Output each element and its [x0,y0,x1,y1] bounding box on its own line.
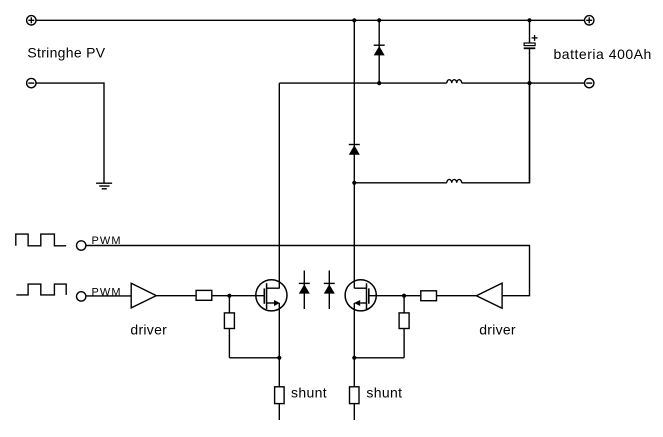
transistor Q1 [256,280,287,311]
node source2 [352,356,356,360]
wire PWM2 to driver1 [86,295,131,297]
op-amp driver U1 [131,283,156,308]
node second rail x529 [527,81,531,85]
diode D1 [374,45,385,55]
diode D4 body [324,271,335,310]
svg-text:driver: driver [479,321,516,337]
terminal battery minus [585,78,594,87]
wire vertical left leg x354 top [353,20,355,144]
node top rail x379 [377,18,381,22]
svg-text:driver: driver [130,321,167,337]
wire battery branch x529 down [529,48,531,183]
resistor R2 gate [421,291,437,301]
resistor R5 shunt1 [275,387,285,404]
wire x354 diode to lower rail [353,144,355,288]
wire drain1 up [278,83,280,288]
resistor R6 shunt2 [350,387,360,404]
wire R1 to gate [212,295,264,297]
svg-text:Stringhe PV: Stringhe PV [27,45,105,61]
wire below shunt1 [278,404,280,420]
node top rail x354 [352,18,356,22]
svg-text:shunt: shunt [366,384,402,400]
wire below shunt2 [353,404,355,420]
node source1 [277,356,281,360]
node gate2 [402,294,406,298]
node top rail x529 [527,18,531,22]
wire second rail right of inductor [462,82,585,84]
terminal PWM1 [77,241,86,250]
node gate1 [227,294,231,298]
terminal PV minus [27,78,36,87]
squarewave icon PWM1 [16,234,66,246]
svg-text:shunt: shunt [291,384,327,400]
wire lower rail left of inductor [354,182,447,184]
transistor Q2 [345,280,376,311]
wire driver1 to R1 [156,295,196,297]
wire second rail left of inductor [279,82,447,84]
svg-text:batteria 400Ah: batteria 400Ah [554,46,652,62]
terminal battery plus [585,16,594,25]
wire PWM1 to right driver [86,246,530,296]
wire source1 down [278,303,280,387]
wire diode branch x379 [378,20,380,83]
wire R4 bottom to source2 [354,357,404,359]
wire top rail [36,19,585,21]
wire PV minus to ground [36,83,104,183]
ground [96,183,112,189]
resistor R4 pulldown [399,296,409,358]
diode D2 [349,145,360,155]
terminal PWM2 [77,292,86,301]
resistor R1 gate [196,290,212,300]
wire source2 down [353,303,355,387]
diode D3 body [299,271,310,310]
squarewave icon PWM2 [16,284,66,295]
wire gate2 to node [369,295,421,297]
inductor L1 [447,80,462,83]
wire R3 bottom to source1 [229,357,279,359]
node lower rail x354 [352,181,356,185]
inductor L2 [447,179,462,182]
terminal PV plus [27,16,36,25]
wire R2 to driver2 [437,295,477,297]
wire battery branch x529 top [529,20,531,43]
resistor R3 pulldown [224,296,234,358]
op-amp driver U2 [476,283,502,308]
wire lower rail right of inductor [462,83,530,183]
capacitor battery C1 [524,35,538,48]
node second rail x379 [377,81,381,85]
